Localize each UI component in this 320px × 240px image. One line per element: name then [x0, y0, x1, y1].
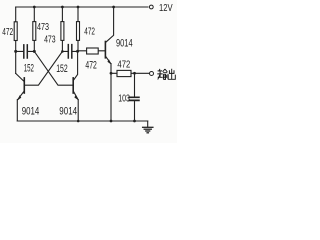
transistor Q3 emitter wire [106, 57, 111, 74]
transistor Q2 emitter wire [74, 91, 79, 121]
terminal 12V circle [149, 5, 153, 9]
arrow Q3 emitter [107, 59, 111, 64]
node dot ground rail / C3 [133, 120, 136, 123]
node dot output / C3 [133, 72, 136, 75]
resistor R3 body [61, 22, 64, 41]
svg-text:473: 473 [37, 22, 49, 33]
transistor Q1 collector wire [16, 73, 24, 81]
transistor Q2 9014 base bar [72, 78, 74, 93]
node dot rail/Q3 collector [112, 6, 115, 9]
node dot C2 right / R4 / R5 [76, 50, 79, 53]
arrow Q1 emitter [17, 95, 21, 101]
node dot rail/R4 [77, 6, 80, 9]
ground symbol [147, 121, 149, 127]
resistor R1 body [14, 22, 17, 41]
transistor Q2 collector wire [73, 51, 77, 80]
node dot ground rail / Q2 emitter [77, 120, 80, 123]
resistor R4 body [77, 22, 80, 41]
wire output line [111, 72, 149, 74]
capacitor C3 plates [129, 97, 139, 100]
svg-text:152: 152 [56, 63, 67, 75]
svg-text:472: 472 [2, 27, 13, 38]
char 输 [157, 69, 162, 80]
wire cross-coupling C2/R3 node to Q1 base [25, 51, 62, 85]
svg-text:472: 472 [85, 60, 96, 72]
resistor R5 472 base resistor leads [78, 50, 105, 52]
char 出 [168, 69, 175, 80]
node dot Q3 emitter / output [110, 72, 113, 75]
svg-text:472: 472 [117, 59, 130, 70]
resistor R6 472 output series body [117, 70, 131, 76]
capacitor C2 plates [68, 45, 72, 58]
svg-text:103: 103 [118, 93, 130, 104]
capacitor C3 103 leads [134, 73, 136, 121]
svg-text:9014: 9014 [116, 38, 133, 50]
svg-text:152: 152 [24, 62, 34, 74]
transistor Q1 9014 base bar [23, 78, 25, 93]
terminal output circle [150, 72, 154, 76]
transistor Q3 9014 base bar [104, 42, 106, 58]
transistor Q3 collector wire [106, 7, 114, 42]
svg-text:472: 472 [84, 27, 95, 38]
node dot rail/R2 [33, 6, 36, 9]
wire top rail 12V [16, 6, 148, 8]
wire cross-coupling C1/R2 node to Q2 base [34, 51, 72, 85]
wire emitter node down to ground rail [110, 73, 112, 121]
resistor R2 473 leads [33, 7, 35, 51]
svg-text:12V: 12V [159, 3, 173, 14]
resistor R3 473 leads [61, 7, 63, 51]
node dot C1 left / Q1 collector [14, 50, 17, 53]
svg-text:473: 473 [44, 35, 56, 46]
wire bottom rail ground [17, 120, 147, 122]
capacitor C1 plates [24, 45, 28, 58]
node dot C1 right / R2 [33, 50, 36, 53]
node dot ground rail / emitter wire [110, 120, 113, 123]
resistor R4 472 leads [77, 7, 79, 51]
node dot C2 left / R3 [61, 50, 64, 53]
resistor R5 body [87, 48, 99, 54]
label 输出 output (drawn) [157, 69, 175, 80]
svg-text:9014: 9014 [22, 106, 40, 118]
capacitor C1 152 leads [16, 50, 35, 52]
resistor R1 472 left branch leads [15, 7, 17, 73]
arrow Q2 emitter [74, 95, 78, 100]
resistor R2 body [33, 22, 36, 41]
svg-text:9014: 9014 [59, 106, 77, 118]
node dot rail/R3 [61, 6, 64, 9]
capacitor C2 152 leads [62, 50, 77, 52]
transistor Q1 emitter wire [17, 91, 24, 121]
